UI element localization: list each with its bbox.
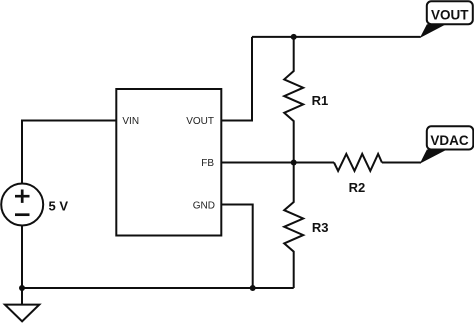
junction node FB (R1/R2/R3) (291, 160, 297, 166)
wire ground stub (21, 288, 23, 305)
junction node top (VOUT net / R1) (291, 34, 297, 40)
junction node ground rail / IC GND (250, 285, 256, 291)
resistor R2 (334, 154, 382, 171)
wire VIN net: source top to IC VIN (22, 121, 116, 184)
resistor R3 (284, 163, 303, 289)
svg-text:R1: R1 (312, 93, 329, 108)
svg-text:VDAC: VDAC (430, 133, 469, 148)
svg-text:VOUT: VOUT (431, 8, 469, 23)
wire source bottom to ground rail (21, 226, 23, 289)
wire top net to VOUT flag (252, 36, 421, 38)
IC U1 box (116, 89, 221, 236)
svg-text:R3: R3 (312, 220, 329, 235)
svg-text:FB: FB (201, 158, 214, 169)
resistor R1 (284, 37, 303, 163)
voltage source V1 (1, 184, 43, 226)
flag VDAC box (427, 126, 474, 149)
wire FB net: IC FB pin to R2 (221, 162, 334, 164)
svg-text:VIN: VIN (122, 116, 139, 127)
wire VOUT pin to top net (221, 37, 252, 121)
flag VOUT pointer (420, 24, 446, 38)
wire R2 to VDAC flag (382, 162, 421, 164)
voltage source minus sign (15, 213, 30, 216)
flag VDAC pointer (420, 150, 447, 164)
voltage source plus sign (15, 190, 30, 203)
wire GND pin to ground rail (221, 205, 252, 289)
flag VOUT box (427, 1, 473, 24)
svg-text:GND: GND (193, 200, 215, 211)
svg-text:5 V: 5 V (49, 199, 69, 214)
junction node ground rail / source (19, 285, 25, 291)
wire ground rail (22, 287, 294, 289)
svg-text:R2: R2 (349, 180, 366, 195)
ground (5, 305, 39, 322)
svg-text:VOUT: VOUT (186, 116, 214, 127)
